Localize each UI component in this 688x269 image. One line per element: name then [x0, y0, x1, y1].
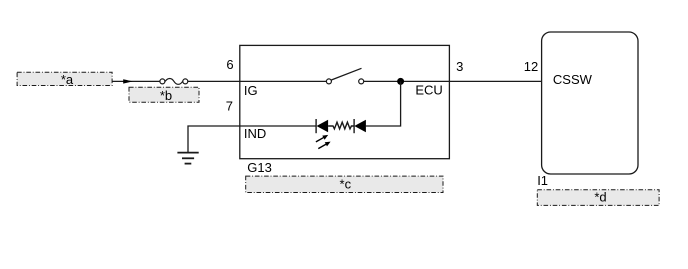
LED light arrow lower	[318, 142, 330, 149]
resistor R	[328, 122, 354, 129]
label box *d connector name	[537, 190, 659, 206]
svg-text:IND: IND	[244, 126, 266, 141]
wire junction down to diode row	[366, 81, 401, 126]
wire from fuse to pin 6 and on to switch	[188, 80, 326, 82]
svg-text:*a: *a	[61, 72, 74, 87]
switch S (open contact)	[326, 68, 363, 84]
fuse F (wavy element between terminals)	[160, 78, 188, 84]
svg-text:ECU: ECU	[415, 82, 442, 97]
svg-text:3: 3	[456, 59, 463, 74]
svg-text:G13: G13	[247, 160, 272, 175]
LED light arrow upper	[316, 135, 328, 142]
connector CSSW	[542, 32, 638, 174]
svg-text:IG: IG	[244, 83, 258, 98]
svg-text:CSSW: CSSW	[553, 72, 593, 87]
svg-text:*d: *d	[594, 190, 606, 205]
svg-text:*b: *b	[160, 88, 172, 103]
label box *b fuse name	[129, 87, 199, 103]
wire from switch to pin 3 and CSSW pin 12	[364, 80, 542, 82]
wire LED to pin 7 IND	[240, 125, 316, 127]
svg-text:I1: I1	[537, 173, 548, 188]
svg-text:12: 12	[524, 59, 538, 74]
diode D1	[354, 119, 366, 133]
wire from *a to fuse	[112, 80, 160, 82]
current direction arrow	[123, 79, 133, 83]
LED indicator lamp	[316, 119, 328, 133]
svg-text:6: 6	[226, 57, 233, 72]
svg-text:7: 7	[226, 99, 233, 114]
meter box (combination meter)	[240, 45, 450, 158]
svg-text:*c: *c	[340, 176, 352, 191]
node *a power feed label box	[17, 72, 112, 87]
junction node	[397, 78, 404, 85]
ground symbol	[177, 153, 198, 164]
wire pin 7 to ground	[188, 126, 240, 153]
label box *c meter name	[246, 176, 443, 192]
